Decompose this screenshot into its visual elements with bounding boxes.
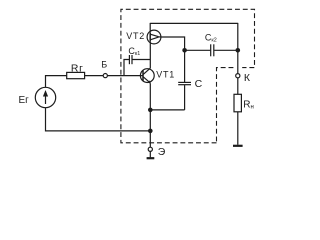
capacitor Cк2: [185, 44, 238, 56]
resistor Rг: [67, 72, 85, 78]
Э terminal lead: [149, 151, 151, 157]
svg-text:Rн: Rн: [243, 99, 254, 110]
wire C bottom to emitter rail: [150, 109, 184, 111]
bottom return wire to Ег: [46, 108, 151, 131]
Rн terminal end bar: [233, 145, 243, 147]
junction node A: [182, 48, 187, 53]
svg-text:Cк2: Cк2: [205, 33, 217, 44]
svg-text:C: C: [195, 78, 203, 90]
top rail wire: [150, 22, 238, 24]
dashed box step segment left of К wire: [217, 68, 234, 143]
transistor VT1: [140, 68, 154, 83]
wire VT1 collector to VT2 emitter: [149, 41, 151, 68]
svg-text:VT2: VT2: [126, 31, 145, 41]
svg-text:Rг: Rг: [71, 63, 84, 74]
node Э (open terminal): [148, 147, 152, 151]
wire Rг to node Б: [85, 75, 104, 77]
svg-text:К: К: [244, 72, 251, 84]
wire VT2 base to node A: [161, 37, 185, 50]
capacitor Cк1: [124, 55, 150, 76]
wire top rail down to collector junction: [237, 23, 239, 50]
resistor Rн: [234, 94, 241, 112]
wire VT2 collector up to top rail: [149, 23, 151, 33]
transistor VT2: [147, 30, 161, 44]
EMF source Eг: [35, 87, 55, 107]
svg-text:VT1: VT1: [156, 69, 175, 79]
junction dot emitter/C: [148, 108, 153, 113]
svg-text:Ег: Ег: [19, 95, 30, 106]
Э terminal end bar: [147, 157, 155, 159]
node Б (open terminal): [103, 74, 107, 78]
svg-text:Б: Б: [101, 60, 107, 70]
wire junction down to node К: [237, 50, 239, 73]
svg-text:Э: Э: [158, 146, 166, 158]
wire Б to VT1 base: [107, 75, 143, 77]
junction dot emitter/source return: [148, 129, 153, 134]
capacitor C: [178, 50, 191, 110]
wire Rн to terminal bar: [237, 112, 239, 145]
dashed box (transistor equivalent-circuit boundary): [121, 9, 255, 143]
svg-text:Cк1: Cк1: [128, 46, 140, 57]
junction dot collector branch: [236, 48, 241, 53]
node К (open terminal): [236, 74, 240, 78]
wire Ег top to Rг: [46, 76, 67, 88]
wire К to Rн: [237, 78, 239, 95]
emitter rail VT1 down: [149, 83, 151, 131]
wire down to node Э: [149, 131, 151, 147]
